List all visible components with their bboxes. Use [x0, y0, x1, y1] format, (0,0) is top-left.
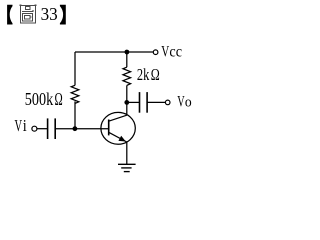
svg-text:500k: 500k	[25, 89, 54, 109]
svg-text:o: o	[185, 94, 192, 110]
svg-text:cc: cc	[169, 43, 182, 60]
svg-text:V: V	[177, 94, 185, 111]
svg-text:33: 33	[41, 4, 58, 24]
svg-text:2k: 2k	[137, 65, 150, 84]
svg-text:V: V	[15, 116, 23, 135]
svg-text:V: V	[161, 43, 169, 60]
svg-text:i: i	[23, 116, 27, 135]
svg-text:Ω: Ω	[151, 65, 160, 84]
svg-text:Ω: Ω	[55, 89, 63, 109]
